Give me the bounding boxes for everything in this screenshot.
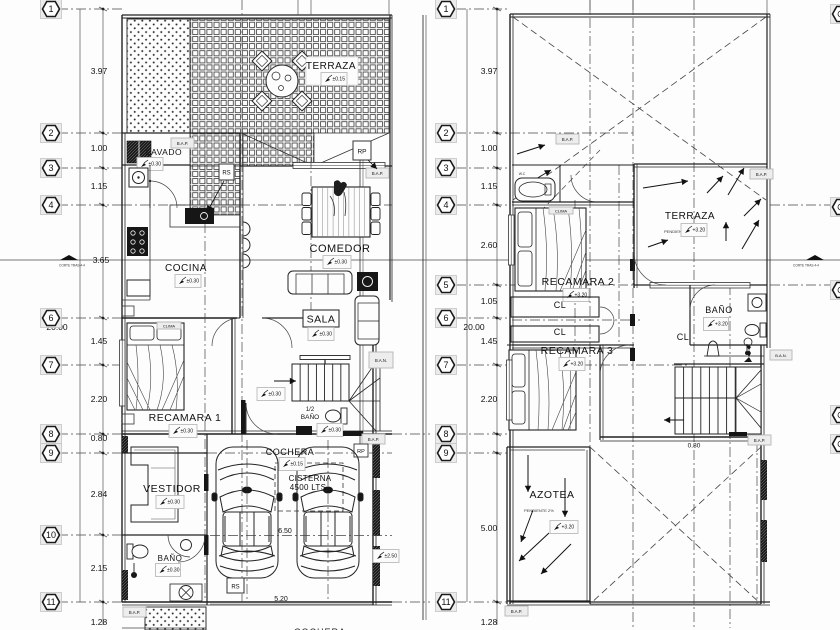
grid axis row lines (left plan) xyxy=(58,8,122,10)
bath door arc xyxy=(168,535,190,557)
RS bottom box xyxy=(227,578,244,593)
hall door arc to terraza xyxy=(634,253,666,285)
arrow xyxy=(643,179,688,188)
closet rect A xyxy=(511,297,599,317)
level tag ±0.30 xyxy=(156,496,184,509)
RP lower box xyxy=(354,444,368,457)
tag B.A.N. xyxy=(369,352,393,368)
upper bath walls xyxy=(689,285,691,345)
svg-text:1.45: 1.45 xyxy=(481,336,498,346)
sofa 3 seats xyxy=(288,271,352,294)
svg-text:2.84: 2.84 xyxy=(91,489,108,499)
svg-text:9: 9 xyxy=(443,448,448,458)
svg-text:B.A.P.: B.A.P. xyxy=(756,172,767,177)
svg-text:1: 1 xyxy=(443,4,448,14)
svg-text:4500 LTS: 4500 LTS xyxy=(290,483,327,492)
svg-text:4: 4 xyxy=(443,200,448,210)
washer dark block xyxy=(127,141,151,163)
bath lamp symbol xyxy=(744,346,752,363)
svg-text:COCHERA: COCHERA xyxy=(266,447,315,457)
level tag ±0.15 xyxy=(321,73,347,86)
svg-text:CORTE TRAS 4-4: CORTE TRAS 4-4 xyxy=(793,264,819,268)
dashed diag lower roof xyxy=(513,150,600,240)
level tag ±2.50 xyxy=(373,550,399,563)
svg-text:COCINA: COCINA xyxy=(165,263,207,274)
right wall hatch segments xyxy=(761,460,767,500)
dark wall segment xyxy=(343,431,363,436)
arrow xyxy=(707,176,723,193)
level tag ±0.30 xyxy=(169,425,197,438)
wall under stair xyxy=(600,436,761,438)
svg-text:1.00: 1.00 xyxy=(481,143,498,153)
half bath washbasin xyxy=(296,426,312,435)
svg-text:BAÑO: BAÑO xyxy=(301,412,319,421)
bedroom3 window xyxy=(507,360,513,420)
svg-text:±0.30: ±0.30 xyxy=(329,428,342,434)
svg-text:B.A.P.: B.A.P. xyxy=(129,610,140,615)
svg-text:+3.20: +3.20 xyxy=(575,293,588,299)
level tag ±0.30 xyxy=(308,328,334,341)
svg-text:CLIMA: CLIMA xyxy=(163,323,176,328)
tag B.A.P. xyxy=(123,607,146,617)
svg-text:VESTIDOR: VESTIDOR xyxy=(143,483,201,495)
round table xyxy=(266,65,298,97)
tag B.A.P. xyxy=(505,606,528,616)
svg-text:0.80: 0.80 xyxy=(688,443,701,450)
dining chairs xyxy=(302,193,311,206)
bed 3 xyxy=(509,350,576,430)
svg-text:3: 3 xyxy=(48,163,53,173)
level tag ±0.30 xyxy=(175,275,201,288)
garage wall dark segments xyxy=(204,474,209,491)
grid bubble 9 xyxy=(41,444,62,463)
dimension lines left xyxy=(79,9,81,602)
svg-text:±0.15: ±0.15 xyxy=(291,462,304,468)
svg-text:CL: CL xyxy=(554,300,567,310)
bedroom right wall xyxy=(231,318,233,434)
bath door arc xyxy=(690,285,715,310)
arrow xyxy=(207,181,224,212)
cisterna dashed xyxy=(275,463,343,511)
svg-text:+3.20: +3.20 xyxy=(571,362,584,368)
vestidor door arc xyxy=(178,535,205,562)
counter edge xyxy=(149,165,151,300)
svg-text:7: 7 xyxy=(443,360,448,370)
svg-text:±0.30: ±0.30 xyxy=(168,500,181,506)
grid bubble 2 xyxy=(41,124,62,143)
grid axis row lines (right plan) xyxy=(456,8,510,10)
section cut line CORTE xyxy=(0,259,840,261)
svg-text:B.A.P.: B.A.P. xyxy=(562,137,573,142)
svg-text:3: 3 xyxy=(443,163,448,173)
grid bubble 6 xyxy=(436,309,457,328)
grid bubble 11 xyxy=(436,593,457,612)
svg-text:6.50: 6.50 xyxy=(278,528,292,535)
tag CLIMA xyxy=(157,322,181,329)
recamara3 door arc xyxy=(600,345,630,375)
svg-text:11: 11 xyxy=(46,597,55,607)
arrow xyxy=(562,478,568,517)
tag B.A.P. xyxy=(171,138,194,148)
wall lavado bottom xyxy=(122,164,190,166)
RS box xyxy=(219,164,234,180)
dim 5.20 xyxy=(210,603,373,605)
svg-text:CL: CL xyxy=(554,327,567,337)
handrail dark xyxy=(729,432,747,436)
svg-text:8: 8 xyxy=(443,429,448,439)
grid bubble 5 xyxy=(436,276,457,295)
kitchen counter low xyxy=(127,280,150,296)
svg-text:7: 7 xyxy=(48,360,53,370)
car at 247 xyxy=(212,447,282,578)
svg-text:TERRAZA: TERRAZA xyxy=(306,61,356,72)
tag B.A.P. xyxy=(748,435,771,445)
svg-text:3.65: 3.65 xyxy=(93,255,110,265)
window recamara2 xyxy=(509,215,515,265)
svg-text:±0.30: ±0.30 xyxy=(167,568,180,574)
arrow xyxy=(744,199,761,216)
svg-text:BAÑO: BAÑO xyxy=(705,305,733,315)
dark fixture strip xyxy=(122,570,128,600)
grid bubble 7 xyxy=(436,356,457,375)
svg-text:PENDIENTE 2%: PENDIENTE 2% xyxy=(524,508,554,513)
grid bubble 8 xyxy=(436,425,457,444)
shower xyxy=(170,584,202,601)
arrow xyxy=(648,239,668,247)
svg-text:6: 6 xyxy=(443,313,448,323)
side table dark xyxy=(357,272,378,291)
bath sink xyxy=(748,294,766,311)
terrace tile hatch mid strip xyxy=(190,133,314,166)
tub room door arc xyxy=(571,175,598,202)
svg-text:1.28: 1.28 xyxy=(91,617,108,627)
level tag +3.20 xyxy=(550,521,578,534)
svg-text:2.20: 2.20 xyxy=(91,394,108,404)
svg-text:5.00: 5.00 xyxy=(481,523,498,533)
grid bubble 9 xyxy=(436,444,457,463)
vestidor closet outline xyxy=(131,447,178,522)
svg-text:1.15: 1.15 xyxy=(481,181,498,191)
svg-text:2.20: 2.20 xyxy=(481,394,498,404)
wall comedor top + window xyxy=(240,165,392,167)
RP box xyxy=(353,141,371,160)
svg-text:2: 2 xyxy=(443,128,448,138)
sofa vertical xyxy=(355,296,379,345)
svg-text:1.28: 1.28 xyxy=(481,617,498,627)
terrace chairs xyxy=(252,51,272,71)
svg-text:RECAMARA 3: RECAMARA 3 xyxy=(541,345,614,357)
stair fan winder xyxy=(349,356,380,401)
svg-text:RECAMARA 2: RECAMARA 2 xyxy=(542,276,615,288)
grid bubble 8 xyxy=(41,425,62,444)
svg-text:±0.30: ±0.30 xyxy=(335,260,348,266)
dimension lines right xyxy=(466,9,468,602)
tag B.A.P. xyxy=(366,168,389,178)
svg-text:1.45: 1.45 xyxy=(91,336,108,346)
svg-text:2.60: 2.60 xyxy=(481,240,498,250)
stair treads xyxy=(292,364,349,401)
grid bubble 3 xyxy=(436,159,457,178)
closet rect B xyxy=(511,326,599,342)
rain pipe lines xyxy=(359,157,361,445)
arrow xyxy=(520,510,533,542)
svg-text:+3.20: +3.20 xyxy=(693,228,706,234)
svg-text:CISTERNA: CISTERNA xyxy=(289,474,332,483)
central wall vertical xyxy=(239,133,241,318)
bath sink dark xyxy=(181,540,192,551)
svg-text:5: 5 xyxy=(443,280,448,290)
svg-text:11: 11 xyxy=(441,597,450,607)
svg-text:+3.20: +3.20 xyxy=(715,322,728,328)
svg-text:20.00: 20.00 xyxy=(463,322,485,332)
svg-text:5.20: 5.20 xyxy=(274,596,288,603)
table decor xyxy=(334,180,347,196)
svg-text:CLIMA: CLIMA xyxy=(555,208,568,213)
hall door arc xyxy=(246,403,277,434)
grid bubble 2 xyxy=(436,124,457,143)
terrace drain diagonal xyxy=(241,133,314,166)
arrow xyxy=(368,160,377,169)
grid bubble (right edge) xyxy=(831,5,840,24)
level tag +3.20 xyxy=(559,358,585,371)
svg-text:W.C: W.C xyxy=(519,172,526,176)
svg-text:2: 2 xyxy=(48,128,53,138)
axes verticals left plan xyxy=(241,0,243,602)
stair2 treads xyxy=(675,367,761,434)
water heater xyxy=(129,168,148,187)
grid bubble 11 xyxy=(41,593,62,612)
svg-text:AZOTEA: AZOTEA xyxy=(529,489,574,501)
stair2 winder xyxy=(736,370,761,398)
bed 2 xyxy=(515,208,586,291)
grid bubble (right edge) xyxy=(831,281,840,300)
stair2 top wall xyxy=(674,363,764,365)
svg-text:3.97: 3.97 xyxy=(481,66,498,76)
kitchen island sink xyxy=(185,208,214,224)
bed 1 xyxy=(127,323,184,410)
grid bubble 1 xyxy=(41,0,62,19)
kitchen door arc xyxy=(150,181,177,208)
svg-text:6: 6 xyxy=(48,313,53,323)
svg-text:B.A.P.: B.A.P. xyxy=(372,171,383,176)
svg-text:±0.30: ±0.30 xyxy=(269,392,282,398)
level tag ±0.30 xyxy=(137,158,163,171)
arrow xyxy=(517,144,545,154)
svg-text:1.00: 1.00 xyxy=(91,143,108,153)
svg-text:VECINO: VECINO xyxy=(374,505,379,525)
arrow xyxy=(723,222,729,241)
bath toilet xyxy=(760,323,766,337)
terraza walls xyxy=(634,163,767,165)
svg-text:8: 8 xyxy=(48,429,53,439)
level tag ±0.30 xyxy=(323,256,351,269)
roof X dashed xyxy=(513,17,766,200)
svg-text:RS: RS xyxy=(222,171,230,177)
svg-text:BAÑO: BAÑO xyxy=(158,554,183,563)
arrow xyxy=(274,378,296,384)
outer walls right plan xyxy=(510,13,770,15)
dim 6.50 xyxy=(210,535,392,537)
arrow xyxy=(524,170,551,186)
svg-text:1: 1 xyxy=(48,4,53,14)
svg-text:RECAMARA 1: RECAMARA 1 xyxy=(149,412,222,424)
dining table xyxy=(312,187,370,237)
level tag ±0.30 xyxy=(156,564,181,577)
label TERRAZA xyxy=(306,57,358,85)
axes verticals right plan xyxy=(589,0,591,604)
svg-text:TERRAZA: TERRAZA xyxy=(665,211,715,222)
arrow xyxy=(664,417,684,423)
svg-text:SALA: SALA xyxy=(307,314,336,326)
garage left wall xyxy=(206,434,208,605)
bedroom1 window dark bar xyxy=(241,400,246,434)
svg-text:B.A.P.: B.A.P. xyxy=(177,141,188,146)
level tag ±0.15 xyxy=(279,458,305,471)
sala door arc xyxy=(262,318,292,348)
level tag ±0.30 xyxy=(317,424,343,437)
terrace tile hatch column xyxy=(190,166,240,215)
bar stools xyxy=(243,222,250,236)
half bath toilet xyxy=(341,408,347,424)
svg-text:+3.20: +3.20 xyxy=(562,525,575,531)
grid bubble 4 xyxy=(436,196,457,215)
wall sala/recamara1 xyxy=(122,317,237,319)
grid bubble (right edge) xyxy=(831,198,840,217)
lot boundary line xyxy=(422,15,424,620)
svg-text:COMEDOR: COMEDOR xyxy=(310,243,371,255)
recamara3 top wall xyxy=(507,344,600,346)
svg-text:LAVADO: LAVADO xyxy=(146,147,182,157)
garden stipple hatch xyxy=(127,19,190,133)
tub room walls xyxy=(512,164,634,166)
grid bubble (right edge) xyxy=(831,435,840,454)
svg-text:±0.30: ±0.30 xyxy=(181,429,194,435)
door jambs dark xyxy=(630,259,635,271)
grid bubble 4 xyxy=(41,196,62,215)
tag CLIMA xyxy=(549,207,573,214)
bedroom3 right wall xyxy=(599,345,601,440)
svg-text:1.05: 1.05 xyxy=(481,296,498,306)
arrow xyxy=(541,544,571,574)
svg-text:CORTE TRAS 4-4: CORTE TRAS 4-4 xyxy=(59,264,85,268)
bedside tables xyxy=(122,306,134,316)
closet walls xyxy=(512,344,634,346)
azotea walls xyxy=(507,446,590,448)
bedroom door arc xyxy=(212,318,240,346)
left wall dark seg rows8-9 xyxy=(122,436,128,453)
recamara2 top wall xyxy=(512,201,634,203)
svg-text:B.A.P.: B.A.P. xyxy=(368,437,379,442)
vestidor/bath wall xyxy=(122,534,207,536)
faucet symbol xyxy=(746,344,748,352)
level tag +3.20 xyxy=(704,318,729,331)
svg-text:±2.50: ±2.50 xyxy=(385,554,398,560)
svg-text:B.A.N.: B.A.N. xyxy=(775,353,787,358)
arrow xyxy=(525,455,531,492)
svg-text:VECINO: VECINO xyxy=(761,525,766,545)
svg-text:RP: RP xyxy=(357,149,366,156)
label SALA box xyxy=(303,310,339,327)
svg-text:B.A.P.: B.A.P. xyxy=(511,609,522,614)
bedroom1 window xyxy=(120,340,126,406)
svg-text:1/2: 1/2 xyxy=(306,407,315,413)
svg-text:±0.30: ±0.30 xyxy=(320,332,333,338)
stair handrail xyxy=(300,356,350,360)
arrow xyxy=(519,533,549,561)
level tag ±0.30 xyxy=(257,388,285,401)
grid bubble 7 xyxy=(41,356,62,375)
stove dark xyxy=(127,227,148,256)
stair2 landing line xyxy=(675,397,736,399)
wall lavado top xyxy=(122,132,240,134)
terrace tile hatch main xyxy=(190,19,389,133)
open area dashed X xyxy=(590,447,761,604)
svg-text:0.80: 0.80 xyxy=(91,433,108,443)
tag B.A.P. xyxy=(750,169,773,179)
svg-text:±0.30: ±0.30 xyxy=(187,279,200,285)
tag B.A.P. xyxy=(362,434,385,444)
tag B.A.P. xyxy=(556,134,579,144)
toilet bottom bath xyxy=(127,544,133,559)
tag B.A.N. xyxy=(770,350,792,360)
wall line8 garage top xyxy=(122,433,392,435)
outer walls left plan xyxy=(122,14,392,16)
car at 328 xyxy=(293,447,363,578)
svg-text:±0.15: ±0.15 xyxy=(333,77,346,83)
arrow xyxy=(742,220,759,249)
svg-text:B.A.P.: B.A.P. xyxy=(754,438,765,443)
grid bubble 3 xyxy=(41,159,62,178)
vestidor top wall xyxy=(122,452,207,454)
grid bubble 1 xyxy=(436,0,457,19)
svg-text:10: 10 xyxy=(46,530,56,540)
svg-text:2.15: 2.15 xyxy=(91,563,108,573)
svg-text:B.A.N.: B.A.N. xyxy=(375,358,387,363)
grid bubble (right edge) xyxy=(831,406,840,425)
bath object xyxy=(707,341,719,356)
svg-text:RS: RS xyxy=(231,585,239,591)
bathtub xyxy=(515,178,555,201)
svg-text:RP: RP xyxy=(357,449,365,455)
svg-text:CL: CL xyxy=(677,332,690,342)
level tag +3.20 xyxy=(681,224,707,237)
svg-text:4: 4 xyxy=(48,200,53,210)
svg-text:3.97: 3.97 xyxy=(91,66,108,76)
patio stipple bottom xyxy=(145,607,206,630)
arrow xyxy=(728,168,744,195)
level tag +3.20 xyxy=(563,289,589,302)
bath shelf row xyxy=(704,355,764,357)
garage right wall hatch xyxy=(373,440,380,478)
grid bubble 6 xyxy=(41,309,62,328)
svg-text:1.15: 1.15 xyxy=(91,181,108,191)
grid bubble 10 xyxy=(41,526,62,545)
closet door arcs xyxy=(600,307,614,321)
svg-text:±0.30: ±0.30 xyxy=(149,162,162,168)
svg-text:9: 9 xyxy=(48,448,53,458)
